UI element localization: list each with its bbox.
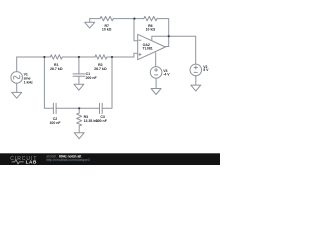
svg-text:5 V: 5 V <box>203 68 209 72</box>
ground under V3 <box>151 89 161 95</box>
node R7-R6 junction <box>133 18 135 20</box>
wire input riser down to bottom T <box>44 57 53 108</box>
svg-text:10 kΩ: 10 kΩ <box>146 28 156 32</box>
resistor R1 <box>50 55 62 59</box>
V3 plus mark <box>155 68 158 71</box>
node output junction <box>168 35 170 37</box>
wire output-node riser to bottom T <box>102 57 112 108</box>
svg-text:100 nF: 100 nF <box>49 121 61 125</box>
footer bar <box>0 153 220 165</box>
wire minus input riser <box>134 19 138 41</box>
resistor R2 <box>95 55 107 59</box>
ground under R3 <box>74 133 84 139</box>
node C1 junction <box>78 56 80 58</box>
source V3 circle <box>150 67 162 79</box>
node output-T junction <box>111 56 113 58</box>
ground under C1 <box>74 84 84 90</box>
resistor R3 <box>77 108 82 132</box>
wire ground to R7 <box>90 18 100 20</box>
op-amp V+ pin wire to V2 <box>152 36 196 64</box>
op-amp plus input step wire <box>134 53 138 57</box>
svg-text:26.7 kΩ: 26.7 kΩ <box>50 67 63 71</box>
resistor R6 <box>144 16 157 20</box>
svg-text:26.7 kΩ: 26.7 kΩ <box>94 67 107 71</box>
wire V1 top riser <box>16 57 18 72</box>
wire R1 to R2 <box>62 56 95 58</box>
ground under V1 <box>12 92 22 98</box>
wire R7 to node at minus input <box>113 18 144 20</box>
wire V3 to ground <box>155 78 157 88</box>
ground top left of R7 <box>85 19 95 29</box>
op-amp plus mark <box>139 54 141 56</box>
footer CircuitLab logo <box>10 156 37 165</box>
wire R2 to op-amp plus input <box>107 56 134 58</box>
op-amp V- pin wire to V3 <box>155 53 157 67</box>
node input junction <box>43 56 45 58</box>
wire top rail V1 to R1 <box>17 56 51 58</box>
svg-text:TL081: TL081 <box>143 47 153 51</box>
V2 minus mark <box>194 71 197 73</box>
capacitor C3 <box>100 103 103 113</box>
svg-text:100 nF: 100 nF <box>96 119 108 123</box>
svg-text:200 nF: 200 nF <box>86 76 98 80</box>
op-amp OA2 triangle <box>138 34 166 59</box>
source V1 circle <box>11 72 23 84</box>
node R3 junction <box>78 107 80 109</box>
svg-text:10 kΩ: 10 kΩ <box>102 28 112 32</box>
junction node dots <box>43 18 169 110</box>
V3 minus mark <box>155 74 158 76</box>
footer circuit title text <box>46 155 89 163</box>
capacitor C1 <box>73 57 85 84</box>
svg-text:LAB: LAB <box>26 160 37 165</box>
wire V2 to ground <box>195 76 197 85</box>
V1 sine glyph <box>13 74 21 81</box>
ground under V2 <box>191 85 201 91</box>
op-amp minus mark <box>139 39 141 41</box>
resistor R7 <box>100 16 113 20</box>
wire R6 to output corner <box>157 19 169 47</box>
wire op-amp output stub <box>165 46 168 48</box>
source V2 circle <box>190 64 202 76</box>
wire R3 node to C3 <box>79 107 99 109</box>
capacitor C2 <box>53 103 79 113</box>
svg-text:-4 V: -4 V <box>163 72 170 76</box>
svg-text:1 kHz: 1 kHz <box>24 80 33 84</box>
component labels <box>24 24 210 125</box>
V2 plus mark <box>194 66 197 69</box>
wire V1 to ground <box>16 83 18 92</box>
svg-text:http://circuitlab.com/c/wdqwr3: http://circuitlab.com/c/wdqwr3 <box>46 158 89 162</box>
